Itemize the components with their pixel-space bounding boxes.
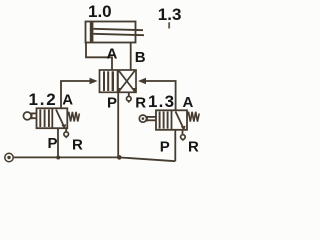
V2 exhaust tip bbox=[64, 136, 68, 139]
svg-text:R: R bbox=[135, 95, 146, 112]
svg-text:P: P bbox=[107, 95, 117, 112]
valve V1 left box flow bar 2 bbox=[107, 71, 109, 91]
valve V3 left box bar 2 bbox=[163, 112, 165, 129]
valve V2 push button circle bbox=[23, 112, 31, 120]
valve V3 right box diagonal A to R bbox=[176, 112, 184, 129]
valve V2 left box bar 1 bbox=[39, 110, 41, 128]
V1 cross arrow blob bottom-left bbox=[117, 88, 121, 92]
pilot line right (from valve 1.3 A) bbox=[146, 81, 176, 110]
valve V1 left box flow bar 3 bbox=[112, 71, 114, 91]
supply bus line bbox=[13, 157, 175, 161]
valve V2 spring bbox=[67, 112, 79, 122]
valve V1 left box flow bar 1 bbox=[103, 71, 105, 91]
V2 diagonal arrowhead bbox=[61, 124, 66, 129]
valve V1 divider bbox=[117, 70, 119, 92]
V3 exhaust ring hole bbox=[182, 136, 184, 138]
svg-text:R: R bbox=[72, 136, 83, 153]
valve V3 spring bbox=[187, 112, 199, 122]
valve V1 main 4/2 body bbox=[100, 70, 137, 92]
V1 exhaust tip bbox=[127, 100, 131, 103]
wire cylinder right port to valve V1 port B bbox=[130, 43, 132, 71]
valve V3 stem lower bbox=[147, 119, 156, 121]
cylinder C1 body (1.0) bbox=[86, 22, 136, 43]
V1 exhaust ring hole bbox=[128, 98, 130, 100]
pilot arrowhead left into V1 bbox=[90, 78, 98, 85]
cylinder C1 rod upper line bbox=[93, 29, 143, 30]
wire V3 port P down to bus end bbox=[174, 130, 176, 161]
wire V1 port P down to supply bus bbox=[117, 92, 119, 157]
valve V2 left box bar 3 bbox=[48, 110, 50, 128]
valve V3 left box bar 1 bbox=[159, 112, 161, 129]
valve V3 left box bar 3 bbox=[167, 112, 169, 129]
valve V2 button stem upper bbox=[32, 112, 37, 114]
svg-text:R: R bbox=[188, 139, 199, 156]
valve V2 right box diagonal A to R bbox=[56, 110, 64, 127]
valve V3 stem upper bbox=[147, 116, 156, 118]
valve V3 stem bar bbox=[146, 116, 148, 122]
wire V2 port P down to bus bbox=[57, 128, 59, 157]
V2 exhaust ring hole bbox=[65, 133, 67, 135]
position tick under label 1.3 bbox=[168, 22, 170, 28]
V3 exhaust stub bbox=[182, 130, 184, 135]
V2 exhaust stub bbox=[65, 128, 67, 131]
pilot line left (from valve 1.2 A) bbox=[61, 81, 90, 109]
valve V2 divider bbox=[51, 108, 53, 128]
valve V2 button stem lower bbox=[32, 117, 37, 119]
svg-text:P: P bbox=[48, 135, 58, 152]
pilot arrowhead right into V1 bbox=[138, 78, 146, 85]
wire V1 port R exhaust stub bbox=[128, 92, 130, 96]
valve V3 (1.3) body bbox=[156, 110, 187, 130]
cylinder C1 piston bbox=[90, 22, 94, 41]
svg-text:B: B bbox=[135, 49, 146, 66]
valve V3 roller circle bbox=[139, 115, 146, 122]
V3 diagonal arrowhead bbox=[181, 126, 186, 131]
valve V1 right box cross path 1 bbox=[119, 71, 135, 92]
svg-text:1.2: 1.2 bbox=[29, 90, 58, 109]
valve V2 left box bar 2 bbox=[44, 110, 46, 128]
source center dot bbox=[7, 156, 10, 159]
V1 cross arrow blob bottom-right bbox=[133, 88, 137, 92]
svg-text:1.3: 1.3 bbox=[158, 5, 182, 24]
V3 exhaust tip bbox=[181, 139, 185, 142]
svg-text:1.0: 1.0 bbox=[88, 2, 112, 21]
valve V1 right box cross path 2 bbox=[119, 71, 135, 92]
wire cylinder left port to valve V1 port A bbox=[86, 43, 112, 71]
V3 roller center dot bbox=[142, 117, 145, 120]
svg-text:A: A bbox=[183, 94, 194, 111]
valve V3 divider bbox=[171, 110, 173, 130]
junction dot at V1 P on bus bbox=[117, 155, 122, 160]
valve V2 button stem bar bbox=[31, 113, 33, 120]
V2 exhaust ring bbox=[64, 132, 69, 137]
svg-text:P: P bbox=[160, 138, 170, 155]
junction dot at V2 P on bus bbox=[56, 156, 60, 160]
svg-text:A: A bbox=[107, 46, 118, 63]
V3 exhaust ring bbox=[181, 135, 186, 140]
source circle bbox=[5, 153, 13, 161]
svg-text:A: A bbox=[62, 91, 73, 108]
cylinder C1 rod lower line bbox=[93, 34, 144, 35]
valve V2 (1.2) body bbox=[37, 108, 68, 128]
svg-text:1.3: 1.3 bbox=[148, 92, 175, 111]
V1 exhaust ring bbox=[127, 96, 132, 101]
